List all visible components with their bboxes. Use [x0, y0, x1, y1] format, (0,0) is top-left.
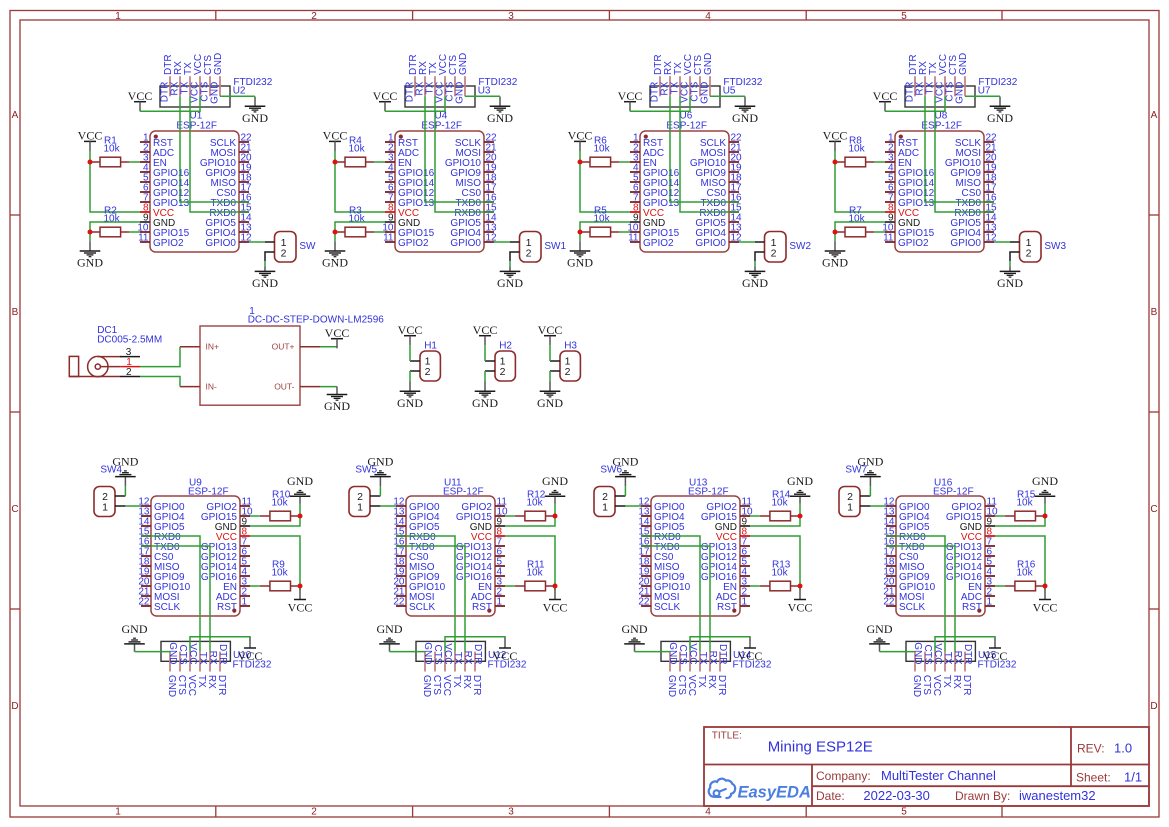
GND net flag (pull-up GND) [1032, 474, 1058, 503]
wire R6 to EN [619, 161, 630, 163]
svg-text:10k: 10k [849, 214, 866, 225]
svg-text:VCC: VCC [186, 675, 197, 696]
svg-text:1: 1 [242, 597, 248, 608]
wire EN to R11 [505, 585, 515, 587]
svg-text:1/1: 1/1 [1124, 770, 1142, 785]
column labels [115, 11, 907, 818]
svg-text:SCLK: SCLK [409, 602, 435, 613]
svg-text:RX: RX [952, 651, 963, 665]
GND net flag (pull-down) [77, 241, 103, 269]
svg-text:GND: GND [422, 642, 433, 664]
VCC net flag (below) [288, 589, 313, 615]
wire GPIO15 to R14 [750, 515, 760, 517]
svg-text:22: 22 [883, 597, 895, 608]
resistor R8 10k [835, 136, 874, 167]
FTDI232 connector U2 [160, 76, 273, 107]
svg-text:GND: GND [622, 622, 648, 636]
EasyEDA logo [709, 779, 811, 802]
wire SW6 to GPIO0 [625, 505, 641, 507]
wire GND-FTDI [135, 651, 171, 653]
resistor R16 10k [1005, 560, 1044, 591]
svg-text:GND: GND [700, 82, 711, 104]
resistor R15 10k [1005, 490, 1044, 521]
svg-text:GND: GND [567, 256, 593, 270]
GND net flag (SW2) [742, 266, 768, 290]
svg-text:1: 1 [115, 807, 121, 818]
svg-text:CTS: CTS [176, 675, 187, 695]
FTDI232 connector U3 [405, 76, 518, 107]
junction at R16 [1043, 584, 1048, 589]
svg-text:VCC: VCC [738, 649, 763, 663]
resistor R10 10k [260, 490, 299, 521]
svg-text:ESP-12F: ESP-12F [421, 120, 462, 131]
svg-text:VCC: VCC [873, 89, 898, 103]
svg-text:GND: GND [1032, 474, 1058, 488]
svg-text:DTR: DTR [216, 675, 227, 696]
svg-text:C: C [1150, 504, 1157, 515]
svg-text:U3: U3 [478, 85, 491, 96]
junction at R3 [333, 230, 338, 235]
svg-text:VCC: VCC [543, 601, 568, 615]
svg-text:SW2: SW2 [789, 241, 811, 252]
svg-text:3: 3 [508, 807, 514, 818]
svg-text:GND: GND [997, 276, 1023, 290]
wire R7 to GPIO15 [874, 231, 885, 233]
wire RX to TXD0 [886, 546, 955, 652]
svg-text:VCC: VCC [473, 323, 498, 337]
wire GPIO15 to R15 [995, 515, 1005, 517]
junction at R9 [298, 584, 303, 589]
wire SW2 pin2 [754, 261, 756, 266]
date row [816, 788, 1096, 803]
wire VCC-FTDI [885, 96, 945, 111]
switch SW1 [510, 232, 567, 263]
svg-text:H2: H2 [499, 341, 512, 352]
svg-text:GND: GND [458, 53, 469, 75]
svg-text:11: 11 [628, 233, 639, 244]
wire SW7 to GPIO0 [870, 505, 886, 507]
svg-text:GND: GND [421, 675, 432, 697]
svg-text:GND: GND [324, 399, 350, 413]
svg-text:GND: GND [867, 622, 893, 636]
svg-text:VCC: VCC [441, 675, 452, 696]
header H3 [550, 341, 580, 382]
svg-text:DC005-2.5MM: DC005-2.5MM [97, 334, 162, 345]
svg-text:2: 2 [126, 367, 132, 378]
svg-text:H1: H1 [424, 341, 437, 352]
svg-text:10k: 10k [527, 568, 544, 579]
svg-text:B: B [1151, 307, 1158, 318]
switch SW7 [839, 465, 870, 517]
svg-text:RX: RX [207, 651, 218, 665]
resistor R12 10k [515, 490, 554, 521]
GND net flag (SW7) [857, 455, 883, 487]
svg-text:3: 3 [508, 11, 514, 22]
svg-text:GND: GND [822, 256, 848, 270]
wire GND-FTDI [880, 651, 916, 653]
svg-text:OUT-: OUT- [274, 381, 294, 391]
svg-text:10k: 10k [272, 498, 289, 509]
svg-text:GND: GND [742, 276, 768, 290]
svg-text:VCC: VCC [823, 129, 848, 143]
GND net flag (FTDI) [867, 622, 893, 652]
junction at R7 [833, 230, 838, 235]
GND net flag (SW4) [112, 455, 138, 487]
svg-text:DTR: DTR [471, 675, 482, 696]
svg-text:IN+: IN+ [206, 342, 220, 352]
junction at R6 [578, 160, 583, 165]
wire VCC to H1 [409, 345, 411, 361]
wire GND-FTDI [390, 651, 426, 653]
svg-text:VCC: VCC [78, 129, 103, 143]
VCC net flag (H1) [398, 323, 423, 345]
wire GND to SW7 [869, 486, 871, 496]
svg-text:RST: RST [472, 602, 492, 613]
svg-text:DTR: DTR [472, 644, 483, 665]
wire VCC to H3 [549, 345, 551, 361]
wire RX to TXD0 [425, 96, 494, 202]
wire TX to RXD0 [886, 536, 945, 652]
svg-text:CTS: CTS [432, 645, 443, 665]
wire VCC-FTDI [630, 96, 690, 111]
svg-text:10k: 10k [594, 214, 611, 225]
svg-text:1: 1 [987, 597, 993, 608]
svg-text:1: 1 [847, 501, 853, 513]
wire GND to SW6 [624, 486, 626, 496]
wire VCC rail [90, 151, 140, 212]
svg-text:11: 11 [883, 233, 894, 244]
svg-text:VCC: VCC [373, 89, 398, 103]
wire VCC rail [250, 536, 300, 590]
VCC net flag (below) [1033, 589, 1058, 615]
VCC net flag (pull-up) [78, 129, 103, 151]
svg-text:4: 4 [705, 807, 711, 818]
svg-text:C: C [11, 504, 18, 515]
header H1 [410, 341, 440, 382]
wire VCC-FTDI [140, 96, 200, 111]
wire RX to TXD0 [141, 546, 210, 652]
svg-text:GND: GND [911, 675, 922, 697]
svg-text:4: 4 [705, 11, 711, 22]
GND net flag (FTDI) [377, 622, 403, 652]
svg-text:TX: TX [697, 652, 708, 665]
DC-DC step-down module LM2596 [180, 306, 384, 405]
header H2 [485, 341, 515, 382]
svg-text:GND: GND [122, 622, 148, 636]
svg-text:22: 22 [393, 597, 405, 608]
GND net flag (LM2596 output) [324, 387, 350, 414]
wire EN to R13 [750, 585, 760, 587]
resistor R11 10k [515, 560, 554, 591]
wire GND pin9 [90, 222, 140, 241]
svg-text:2: 2 [311, 11, 317, 22]
wire EN to R9 [250, 585, 260, 587]
GND net flag (pull-down) [822, 241, 848, 269]
wire GPIO15 to R12 [505, 515, 515, 517]
FTDI232 connector U12 [416, 641, 527, 671]
svg-text:D: D [1150, 701, 1157, 712]
wire R5 to GPIO15 [619, 231, 630, 233]
svg-text:RX: RX [951, 675, 962, 689]
svg-text:2: 2 [311, 807, 317, 818]
wire GND to SW4 [124, 486, 126, 496]
svg-text:GND: GND [912, 642, 923, 664]
svg-text:GND: GND [612, 455, 638, 469]
VCC net flag (FTDI supply) [128, 89, 153, 111]
svg-text:VCC: VCC [323, 129, 348, 143]
svg-text:10k: 10k [527, 498, 544, 509]
svg-text:iwanestem32: iwanestem32 [1019, 788, 1096, 803]
svg-text:SW: SW [299, 241, 316, 252]
svg-text:10k: 10k [349, 214, 366, 225]
wire GND rail [995, 504, 1045, 527]
wire VCC rail [505, 536, 555, 590]
wire R2 to GPIO15 [129, 231, 140, 233]
wire GND pin9 [335, 222, 385, 241]
wire OUT- to GND [320, 386, 337, 388]
VCC net flag (FTDI supply) [493, 637, 518, 663]
wire GND rail [505, 504, 555, 527]
svg-text:A: A [1151, 110, 1158, 121]
wire GPIO0 to SW3 [994, 241, 1010, 243]
svg-text:22: 22 [138, 597, 150, 608]
switch SW5 [349, 465, 380, 517]
svg-text:U2: U2 [233, 85, 246, 96]
VCC net flag (LM2596 output) [325, 326, 350, 348]
svg-text:OUT+: OUT+ [272, 342, 295, 352]
wire H1 to GND [409, 371, 411, 382]
wire SW pin2 [264, 261, 266, 266]
svg-text:VCC: VCC [686, 675, 697, 696]
svg-text:GND: GND [732, 111, 758, 125]
svg-text:TX: TX [196, 675, 207, 688]
junction at R14 [798, 514, 803, 519]
svg-text:2: 2 [1026, 247, 1032, 259]
svg-text:CTS: CTS [676, 675, 687, 695]
GND net flag (SW1) [497, 266, 523, 290]
svg-text:RX: RX [707, 651, 718, 665]
svg-text:TX: TX [941, 675, 952, 688]
svg-text:GPIO0: GPIO0 [205, 238, 236, 249]
svg-text:GND: GND [455, 82, 466, 104]
svg-text:DTR: DTR [217, 644, 228, 665]
svg-text:2: 2 [771, 247, 777, 259]
svg-text:10k: 10k [772, 498, 789, 509]
wire TX to RXD0 [935, 96, 994, 212]
svg-text:H3: H3 [564, 341, 577, 352]
junction at R11 [553, 584, 558, 589]
GND net flag (FTDI) [122, 622, 148, 652]
svg-text:DTR: DTR [962, 644, 973, 665]
svg-text:GND: GND [367, 455, 393, 469]
VCC net flag (FTDI supply) [618, 89, 643, 111]
wire VCC rail [750, 536, 800, 590]
wire GPIO0 to SW2 [739, 241, 755, 243]
svg-text:SCLK: SCLK [654, 602, 680, 613]
GND net flag (FTDI) [487, 97, 513, 125]
GND net flag (pull-up GND) [542, 474, 568, 503]
svg-text:2: 2 [425, 366, 431, 378]
svg-text:GND: GND [472, 396, 498, 410]
svg-text:VCC: VCC [128, 89, 153, 103]
GND net flag (pull-down) [322, 241, 348, 269]
svg-text:10k: 10k [1017, 568, 1034, 579]
svg-text:GND: GND [497, 276, 523, 290]
wire DC1 pin1 to IN+ [140, 347, 180, 367]
svg-text:GND: GND [537, 396, 563, 410]
wire EN to R16 [995, 585, 1005, 587]
junction at R4 [333, 160, 338, 165]
title text [712, 731, 873, 756]
svg-text:RST: RST [962, 602, 982, 613]
junction at R10 [298, 514, 303, 519]
wire RX to TXD0 [641, 546, 710, 652]
wire VCC rail [995, 536, 1045, 590]
GND net flag (pull-up GND) [787, 474, 813, 503]
GND net flag (FTDI) [987, 97, 1013, 125]
svg-text:VCC: VCC [568, 129, 593, 143]
svg-text:GPIO2: GPIO2 [398, 238, 429, 249]
svg-text:GPIO2: GPIO2 [898, 238, 929, 249]
wire TX to RXD0 [680, 96, 739, 212]
VCC net flag (H3) [538, 323, 563, 345]
svg-text:VCC: VCC [325, 326, 350, 340]
resistor R6 10k [580, 136, 619, 167]
row labels [11, 110, 1157, 712]
svg-text:CTS: CTS [922, 645, 933, 665]
svg-text:VCC: VCC [687, 643, 698, 664]
wire GND-FTDI [635, 651, 671, 653]
svg-text:U7: U7 [978, 85, 991, 96]
svg-text:GND: GND [322, 256, 348, 270]
svg-text:VCC: VCC [538, 323, 563, 337]
wire GND-FTDI [710, 95, 745, 97]
svg-text:RX: RX [206, 675, 217, 689]
svg-text:Drawn By:: Drawn By: [955, 789, 1010, 803]
svg-text:2022-03-30: 2022-03-30 [863, 788, 930, 803]
wire SW1 pin2 [509, 261, 511, 266]
GND net flag (SW6) [612, 455, 638, 487]
svg-text:CTS: CTS [921, 675, 932, 695]
svg-text:GPIO2: GPIO2 [153, 238, 184, 249]
svg-text:DTR: DTR [716, 675, 727, 696]
sheet cell [1076, 770, 1142, 785]
svg-text:ESP-12F: ESP-12F [666, 120, 707, 131]
svg-text:TX: TX [942, 652, 953, 665]
VCC net flag (pull-up) [323, 129, 348, 151]
svg-text:VCC: VCC [618, 89, 643, 103]
junction at R1 [88, 160, 93, 165]
svg-text:RST: RST [217, 602, 237, 613]
svg-text:1: 1 [602, 501, 608, 513]
resistor R7 10k [835, 206, 874, 237]
svg-text:2: 2 [526, 247, 532, 259]
svg-text:A: A [12, 110, 19, 121]
GND net flag (SW3) [997, 266, 1023, 290]
wire GND rail [250, 504, 300, 527]
switch SW2 [755, 232, 812, 263]
revision [1077, 740, 1132, 755]
svg-text:GND: GND [857, 455, 883, 469]
wire DC1 pin2 to IN- [140, 377, 180, 387]
wire GND-FTDI [965, 95, 1000, 97]
wire R1 to EN [129, 161, 140, 163]
svg-text:10k: 10k [349, 144, 366, 155]
svg-text:VCC: VCC [238, 649, 263, 663]
svg-text:2: 2 [565, 366, 571, 378]
GND net flag (pull-down) [567, 241, 593, 269]
svg-text:Mining ESP12E: Mining ESP12E [768, 739, 873, 756]
VCC net flag (FTDI supply) [238, 637, 263, 663]
svg-text:GND: GND [397, 396, 423, 410]
GND net flag (H3) [537, 382, 563, 410]
svg-text:GND: GND [958, 53, 969, 75]
svg-text:SW1: SW1 [544, 241, 566, 252]
wire VCC-FTDI [935, 637, 995, 652]
wire RX to TXD0 [180, 96, 249, 202]
svg-text:GND: GND [287, 474, 313, 488]
svg-text:11: 11 [383, 233, 394, 244]
svg-text:B: B [12, 307, 19, 318]
svg-text:10k: 10k [849, 144, 866, 155]
wire GPIO0 to SW1 [494, 241, 510, 243]
junction at R15 [1043, 514, 1048, 519]
VCC net flag (FTDI supply) [873, 89, 898, 111]
svg-text:TX: TX [197, 652, 208, 665]
svg-text:EasyEDA: EasyEDA [738, 784, 811, 802]
ESP-12F module U16 [883, 478, 998, 617]
FTDI232 connector U7 [905, 76, 1018, 107]
junction at R5 [578, 230, 583, 235]
svg-text:VCC: VCC [288, 601, 313, 615]
wire VCC rail [335, 151, 385, 212]
wire GPIO15 to R10 [250, 515, 260, 517]
svg-text:VCC: VCC [788, 601, 813, 615]
wire RX to TXD0 [396, 546, 465, 652]
svg-text:RX: RX [706, 675, 717, 689]
ESP-12F module U4 [382, 110, 497, 252]
ESP-12F module U6 [627, 110, 742, 252]
switch SW4 [94, 465, 125, 517]
GND net flag (pull-up GND) [287, 474, 313, 503]
wire VCC-FTDI [445, 637, 505, 652]
svg-text:RX: RX [461, 675, 472, 689]
svg-text:10k: 10k [272, 568, 289, 579]
switch SW [265, 232, 316, 263]
junction at R13 [798, 584, 803, 589]
wire TX to RXD0 [141, 536, 200, 652]
resistor R9 10k [260, 560, 299, 591]
svg-text:GND: GND [787, 474, 813, 488]
svg-text:GND: GND [213, 53, 224, 75]
svg-text:TX: TX [451, 675, 462, 688]
wire VCC-FTDI [190, 637, 250, 652]
GND net flag (SW) [252, 266, 278, 290]
ESP-12F module U9 [138, 478, 253, 617]
svg-text:VCC: VCC [1033, 601, 1058, 615]
svg-text:GND: GND [167, 642, 178, 664]
wire H3 to GND [549, 371, 551, 382]
svg-text:Date:: Date: [816, 789, 845, 803]
svg-text:VCC: VCC [442, 643, 453, 664]
FTDI232 connector U5 [650, 76, 763, 107]
wire R8 to EN [874, 161, 885, 163]
resistor R5 10k [580, 206, 619, 237]
svg-text:GND: GND [210, 82, 221, 104]
svg-text:TX: TX [452, 652, 463, 665]
GND net flag (SW5) [367, 455, 393, 487]
svg-text:DTR: DTR [961, 675, 972, 696]
